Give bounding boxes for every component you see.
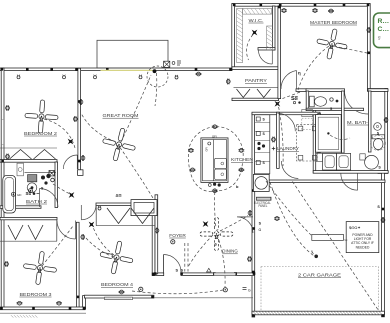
exterior wall - right side upper (master bedroom) [367,4,370,91]
wire porch lights [132,290,223,294]
wall post top-right [233,4,236,7]
outlet bedroom2 east wall [73,116,77,122]
wall post top-right [260,4,263,7]
bath2 tub [3,175,16,213]
door laundry south swing [281,161,298,179]
master vanity end cabinet [316,153,323,161]
svg-text:BEDROOM 3: BEDROOM 3 [20,292,53,297]
bedroom2 closet header [0,147,57,149]
bath2 gfi outlet [11,192,15,196]
outlet master bath right [384,117,388,123]
wall - bedroom2 south / bath2 north [0,160,57,163]
hall light by pantry [175,75,178,79]
porch light below top wall 4 [139,75,142,79]
green tooltip overlay [374,13,390,48]
door master bath entry swing [345,91,369,115]
wire dining fan to porch light [217,235,225,287]
door front entry leaf [163,255,165,274]
pantry closet header [234,87,278,89]
wire foyer double drop 2 [187,243,189,272]
post bedroom3 wall [32,307,35,310]
svg-text:DINING: DINING [222,249,238,254]
wall post top-right [314,4,317,7]
laundry corner block [312,126,317,131]
kitchen cabinet divider [255,140,270,142]
laundry corner block [298,155,303,160]
wire master fan dashes in wic [281,92,300,99]
wire bedroom3 fan to door [42,226,73,266]
exterior wall - bedroom4 bottom [84,295,153,298]
post bedroom4 wall [151,296,154,299]
wire kitchen island loop [188,127,243,192]
bedroom4 closet front line [96,225,155,227]
marks next to skylight [172,62,175,65]
kitchen loop outlet [238,149,244,153]
exterior wall - bedroom3 bottom [0,307,85,310]
door bedroom2 leaf+swing [63,155,77,169]
patio hatch slab [11,315,37,317]
ceiling fan bedroom 3 [21,249,58,286]
post divider wall [78,160,81,163]
outlet pantry west wall [226,79,230,85]
laundry dashed cabinet outline [297,124,318,161]
exterior wall - garage right side [382,171,385,317]
skylight box with X [164,61,170,67]
wall - shower east / bath core [342,91,345,153]
wall post garage left [252,227,255,230]
outlet left wall bath2 [6,154,10,160]
porch ceiling light right [223,288,227,292]
exterior wall - foyer front left of door [152,273,164,276]
kitchen counter outlet cluster [257,142,260,145]
fireplace box [131,200,157,216]
outlet garage interior top [274,217,280,221]
post bedroom3 wall [83,307,86,310]
wire great fan down to foyer [120,148,153,199]
exterior wall - jog at toilet room [367,89,387,92]
attic note box [346,222,379,253]
wall - toilet compartment south [306,108,363,110]
window slab end blocks [213,272,216,275]
exterior wall - garage bottom [252,311,384,315]
wire hall star to laundry [278,102,284,166]
hall star by pantry [272,98,283,109]
corner tub [365,155,379,169]
outlet great room side of divider [81,155,85,161]
bedroom4 closet bifold left [107,208,130,224]
porch light below top wall 1 [17,75,20,79]
outlet left wall bedroom2 [6,105,10,111]
bedroom2 closet bifold left [10,150,32,160]
wall - bedroom3/bedroom4 divider [76,222,79,308]
garage bottom hatch [253,312,382,315]
post master wall [278,6,281,9]
kitchen loop outlet [212,189,218,193]
ceiling fan bedroom 4 [97,238,136,277]
laundry corner block [298,126,303,131]
wire master fan to right wall [334,46,367,53]
bedroom3 closet side [56,220,58,242]
post bedroom3 wall [0,307,3,310]
bath2 switch cluster [41,176,45,180]
kitchen cabinet divider [255,152,270,154]
svg-text:2 CAR GARAGE: 2 CAR GARAGE [298,272,341,277]
kitchen cabinet switch mark [256,117,260,121]
wall post [75,68,78,71]
kitchen island double sink [215,158,227,168]
dashed circle at junction [147,66,168,87]
wall - laundry west [277,112,280,168]
window in left wall bedroom2 [2,120,4,145]
hall ceiling light [98,206,101,210]
svg-text:Sʬ: Sʬ [291,96,298,102]
wire junction drop into great room [155,73,157,106]
wall - foyer west / bedroom4 east [152,203,155,275]
wire dining fan to garage wall [220,216,248,232]
post bedroom4 wall [77,296,80,299]
kitchen cabinet divider [255,161,270,163]
junction dot at porch bump [153,69,157,73]
wall - laundry east [318,114,321,153]
wall - kitchen/garage long vertical [252,113,255,317]
porch slab edge [153,297,253,299]
bedroom4 window slab [105,297,133,300]
kitchen cabinet divider [255,131,270,133]
wall - garage north [254,180,385,183]
post at divider wall end [78,170,83,176]
electrical panel box [256,197,271,200]
toilet room outlet marks [330,98,333,101]
wire bedroom2 fan to switch [44,119,76,150]
door master bedroom swing [281,71,297,90]
laundry plus mark [272,147,275,150]
wire great fan to porch junction [121,75,151,142]
wall post garage left [252,314,255,317]
wall - laundry/kitchen corridor north [252,112,320,115]
wall post [106,68,109,71]
kitchen loop outlet [188,149,194,153]
kitchen outlet above island [212,125,218,129]
wall - step between bedroom wings [83,296,86,310]
outlet master top wall 2 [312,9,318,13]
wall - bath2 south [0,206,41,209]
garage inner line left [260,267,262,311]
toilet room toilet [310,96,315,107]
wire garage to light [270,182,314,256]
master shower [316,115,342,153]
wire master fan to switches [298,46,329,90]
wall - master bath north right [368,89,388,92]
outlet bedroom2 north wall [79,99,83,105]
bedroom3 closet bifold right [28,225,43,240]
kitchen island gfi marks [208,142,211,145]
svg-text:MASTER BEDROOM: MASTER BEDROOM [310,20,357,25]
porch ceiling light left [139,287,143,291]
wall post garage NE [382,208,385,211]
svg-text:G: G [248,289,251,293]
wire island to dining fan [215,192,216,228]
triangle mark above front wall [207,268,211,272]
foyer star [200,218,211,229]
kitchen cabinet column [255,115,270,174]
outlet master top wall 1 [281,9,287,13]
wall - pantry south / kitchen north [232,98,279,100]
bath2 toilet [28,175,37,182]
porch post [253,272,256,275]
wall - bedroom2 / great room divider [78,68,81,170]
wire attic note to slab [343,239,348,240]
kitchen cabinet switch mark [256,132,260,136]
linen closet [302,110,313,117]
svg-text:GFI: GFI [212,135,217,139]
wall post [229,68,232,71]
wall post garage left [252,271,255,274]
svg-text:GFI: GFI [17,193,22,197]
svg-text:LAUNDRY: LAUNDRY [277,146,299,151]
outlet foyer west wall [155,228,159,234]
svg-text:KITCHEN: KITCHEN [231,157,253,162]
wall - master bath west [313,110,316,172]
hall star by bedroom2 door [65,136,76,147]
wall post [50,68,53,71]
wire great fan to bedroom2 wall [82,114,117,142]
pantry bifold right [257,89,271,98]
outlet garage right wall [381,217,385,223]
svg-text:$ʘΩ✦: $ʘΩ✦ [349,225,361,230]
svg-text:R…: R… [378,18,390,25]
door laundry north swing [277,113,295,131]
outlet left wall bedroom3 [5,261,9,267]
wall - master bath water closet divider [368,91,371,152]
pantry bifold left [237,89,251,98]
post left wall [1,160,4,163]
wall post [195,68,198,71]
porch light below top wall 2 [63,75,66,79]
exterior wall - front wall right of door [181,273,255,276]
bedroom4 closet side [95,206,97,226]
wall - toilet compartment west [306,91,309,111]
outlet master right wall [367,27,371,33]
door front entry swing [164,254,182,272]
covered porch bump outline [97,40,168,68]
yellow highlighted wire [101,69,153,71]
door bath2 swing [40,189,59,208]
door bedroom4 swing [81,205,96,220]
exterior wall - jog at tub [378,171,388,174]
porch G outlet marks [243,287,247,289]
outlet bedroom3 bottom wall 1 [17,301,23,305]
master vanity sinks [323,153,337,170]
wall post [26,68,29,71]
wall post [1,68,4,71]
wall - bedroom3 north / closet [0,217,57,219]
svg-text:M. BATH: M. BATH [347,120,369,125]
garage ceiling light [314,254,318,258]
door bedroom3 leaf+swing [57,221,76,240]
bath2 vent fan [49,171,54,176]
dining window slab [214,273,236,276]
wall - W.I.C. south [258,48,275,50]
wall - master bedroom west / pantry east [278,6,281,99]
kitchen under-island outlets [213,183,216,186]
wall - W.I.C. east [272,6,275,50]
bedroom3 closet front line [0,240,57,242]
porch post [154,272,157,275]
outlet great room top [196,72,202,76]
svg-text:Ω: Ω [258,228,261,232]
svg-text:NEEDED: NEEDED [356,245,370,249]
garage door opener slab [312,234,344,240]
post bedroom3 wall [69,307,72,310]
outlet dining east wall 2 [248,256,252,262]
porch light below top wall 3 [94,75,97,79]
kitchen cabinet switch mark [256,161,260,165]
wic shelving left band [237,9,243,63]
svg-text:5ʹ: 5ʹ [378,36,381,41]
wire garage to slab [266,181,312,236]
wall - hall south / bedroom4 closet north [96,203,158,206]
wire shower light [330,135,350,139]
svg-text:C…: C… [378,26,390,33]
laundry corner block [312,155,317,160]
bedroom2 closet bifold right [34,150,56,160]
master bath sink right [374,123,382,131]
ceiling fan great room [99,124,139,164]
bath2 counter edge [25,171,57,173]
garage inner line right [377,267,379,311]
garage inner line top [261,266,378,268]
wall post garage left [252,189,255,192]
wall - great room east / foyer [155,195,158,274]
water heater [253,174,269,191]
master closet shelf band [267,26,273,50]
exterior wall - right side master bath [385,89,388,174]
wire garage long diagonal [293,182,379,311]
kitchen cabinet divider [255,122,270,124]
svg-text:PANTRY: PANTRY [245,78,267,83]
wall post right wall [368,52,371,55]
wire bath2 fan [53,184,69,194]
post foyer wall corner [152,273,155,276]
bedroom3 closet bifold left [8,225,23,240]
wall - W.I.C. west / left wing junction [232,4,235,69]
wire bedroom4 fan to outlet [86,238,114,257]
outlet dining east wall 1 [248,210,252,216]
exterior wall - left side [1,68,4,308]
outlet bedroom4 bottom wall [119,290,125,294]
svg-text:FOYER: FOYER [169,233,186,238]
exterior wall - top of right wing [232,4,370,7]
bedroom4 entry star [86,219,97,230]
door garage swing [237,217,253,233]
svg-text:BEDROOM 4: BEDROOM 4 [101,282,134,287]
door master bath swing [341,173,358,190]
wall - bath2 east [55,162,58,208]
wall - pantry north [232,67,279,70]
ceiling fan bedroom 2 [24,99,59,134]
kitchen loop outlet [190,168,196,172]
outlet master top wall 3 [328,9,334,13]
master bath toilet 2 [372,135,385,139]
svg-text:ƞ: ƞ [298,71,301,76]
ceiling fan dining [200,218,233,251]
post divider wall [78,100,81,103]
wic star [249,27,260,38]
ceiling fan master bedroom [314,26,350,62]
outlet bedroom3 bottom wall 2 [56,301,62,305]
bath2 vanity [17,163,23,176]
porch post [180,272,183,275]
kitchen loop outlet [238,168,244,172]
wall post top-right [367,4,370,7]
wic shelving top band [243,9,272,15]
wire bedroom4 fan to star [93,227,114,255]
svg-text:W.I.C.: W.I.C. [249,18,264,23]
outlet bedroom34 divider [81,234,85,240]
wall post garage SE [382,314,385,317]
hall star by bath2 [66,189,77,200]
wall post top-right [343,4,346,7]
svg-text:ΔΩ: ΔΩ [116,193,123,198]
svg-text:PANEL: PANEL [259,204,268,208]
wire foyer double drop 1 [184,243,186,272]
door W.I.C. swing [259,50,273,64]
svg-text:BATH 2: BATH 2 [26,199,48,204]
wire dining fan to foyer [188,235,213,267]
bedroom4 closet bifold right [131,208,154,224]
porch post [234,272,237,275]
wall - master bedroom south right of door [296,89,307,92]
wire wic star [247,35,253,61]
kitchen island [201,138,228,183]
wall post top-right [279,4,282,7]
patio edge below bedroom3 [0,312,86,314]
foyer ceiling light [171,240,175,244]
svg-text:GFI: GFI [205,147,209,152]
exterior wall - top of left wing [0,68,232,71]
wall - master bath north left [306,89,345,92]
wall - master bath south [313,171,388,174]
outlet laundry hall [272,137,276,143]
